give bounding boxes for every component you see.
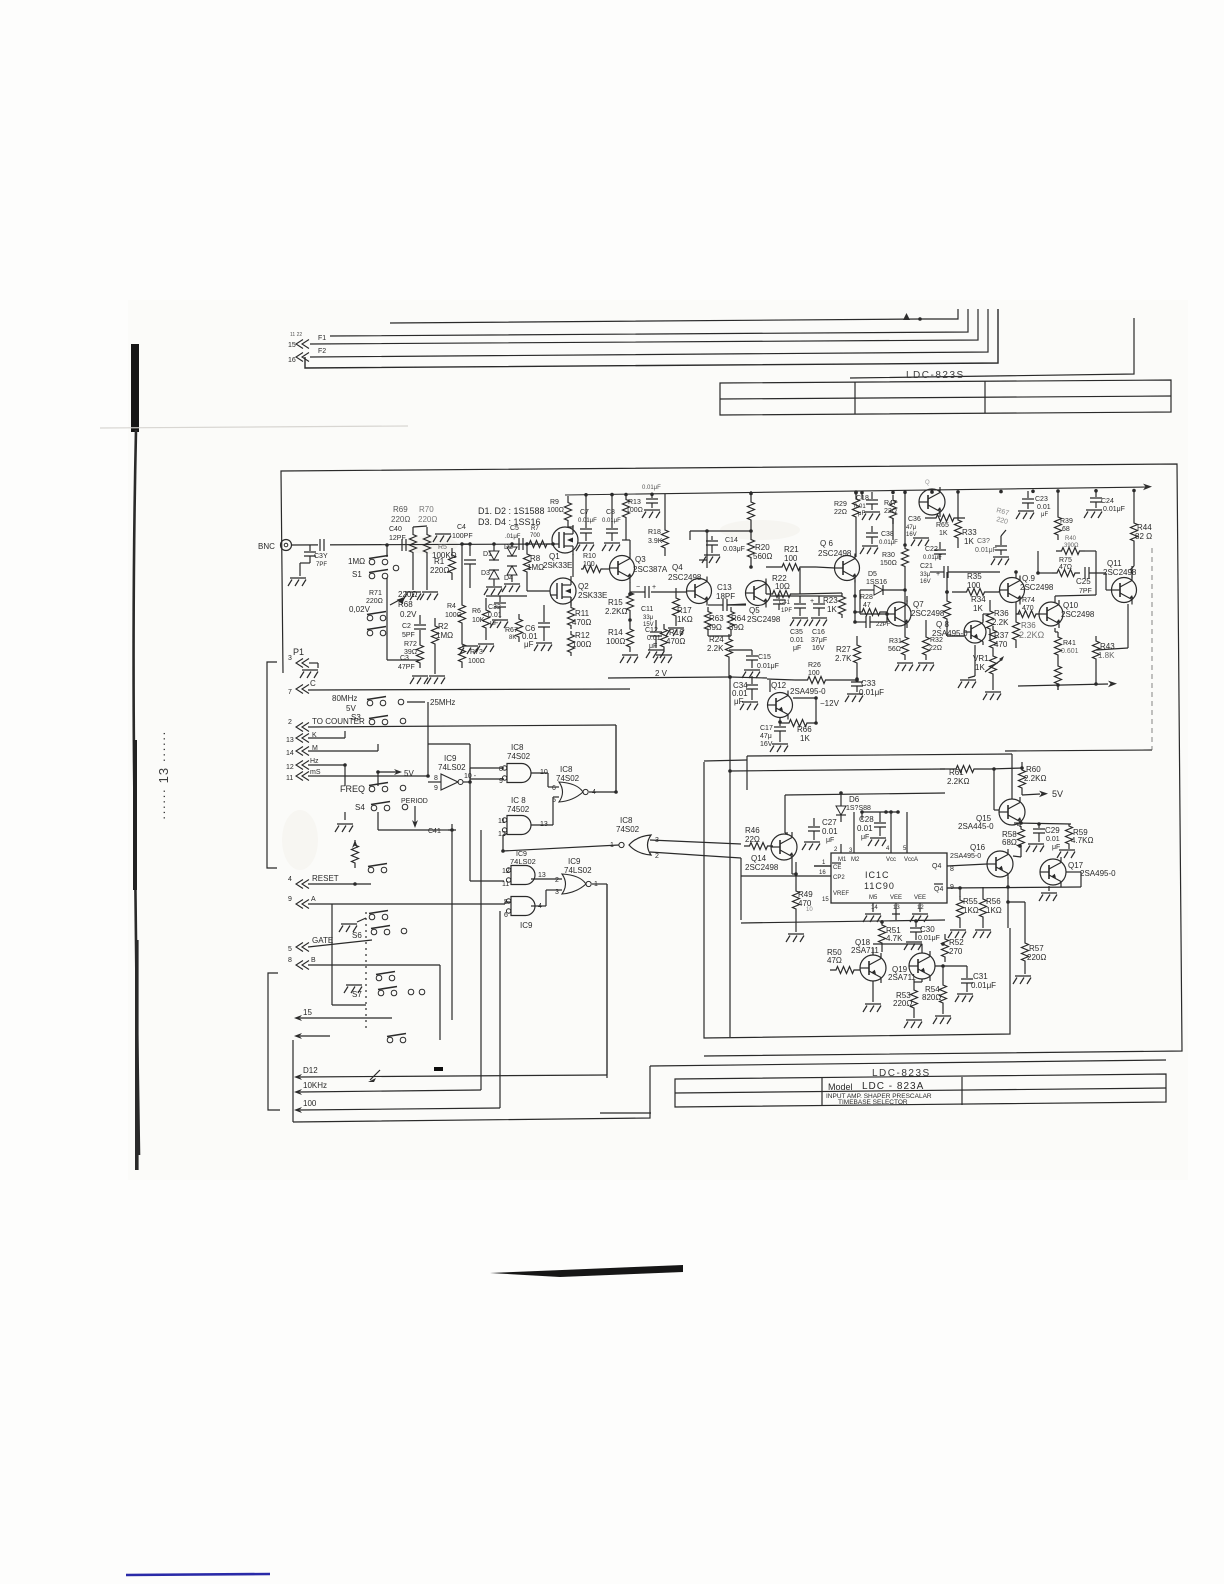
svg-text:220Ω: 220Ω xyxy=(430,566,449,575)
svg-text:LDC-823S: LDC-823S xyxy=(872,1068,931,1079)
wire R34 to Q8 xyxy=(946,628,948,636)
transistor Q6 2SC2498 xyxy=(835,556,860,581)
svg-text:2SC2498: 2SC2498 xyxy=(668,573,702,582)
wire F1 xyxy=(310,309,978,344)
svg-text:2.2KΩ: 2.2KΩ xyxy=(605,607,627,616)
svg-text:74502: 74502 xyxy=(507,805,530,814)
wire Q18 Q19 tops xyxy=(872,948,874,955)
switch linkage dashed xyxy=(365,912,367,1031)
switch S6a xyxy=(369,914,375,920)
svg-text:R13: R13 xyxy=(628,499,641,506)
svg-text:10Ω: 10Ω xyxy=(775,582,790,591)
svg-text:R20: R20 xyxy=(755,543,770,552)
svg-text:8: 8 xyxy=(434,775,438,782)
svg-text:2.2K: 2.2K xyxy=(992,618,1009,627)
svg-text:0.01μF: 0.01μF xyxy=(879,540,898,546)
svg-text:C23: C23 xyxy=(1035,496,1048,503)
svg-text:R72: R72 xyxy=(404,641,417,648)
svg-text:R70: R70 xyxy=(419,505,434,514)
wire top bus line 2 xyxy=(330,309,968,336)
svg-text:1KΩ: 1KΩ xyxy=(986,906,1002,915)
wire Q3 emitter xyxy=(629,582,631,583)
pin 12 Hz xyxy=(296,761,309,770)
svg-text:16V: 16V xyxy=(920,579,931,585)
top title strip table xyxy=(720,380,1171,415)
wire top net prescaler xyxy=(785,793,945,795)
svg-text:B: B xyxy=(311,957,316,964)
wire gate4 inputs right xyxy=(650,840,741,844)
svg-text:0.01μF: 0.01μF xyxy=(975,547,997,554)
svg-text:R74: R74 xyxy=(1022,597,1035,604)
wire K xyxy=(308,737,345,739)
wire Q16 collector down xyxy=(1007,877,1009,928)
svg-text:22Ω: 22Ω xyxy=(929,645,942,652)
svg-text:FREQ: FREQ xyxy=(340,784,365,794)
svg-text:7: 7 xyxy=(288,689,292,696)
svg-text:R49: R49 xyxy=(798,890,813,899)
wire 2V rail xyxy=(608,677,730,678)
transistor Q16 2SA495-0 xyxy=(987,851,1013,877)
svg-text:R32: R32 xyxy=(930,637,943,644)
svg-text:TIMEBASE SELECTOR: TIMEBASE SELECTOR xyxy=(838,1099,908,1106)
wire C line xyxy=(308,689,630,690)
ground Q17 xyxy=(1039,893,1057,901)
svg-text:VEE: VEE xyxy=(890,895,902,901)
svg-text:C24: C24 xyxy=(1101,498,1114,505)
IC10 grounds xyxy=(872,903,874,912)
svg-text:22PF: 22PF xyxy=(876,622,891,628)
svg-text:Q1: Q1 xyxy=(549,552,560,561)
wire D12 vertical top xyxy=(606,884,608,1075)
svg-text:Q4: Q4 xyxy=(672,563,683,572)
ground pin3 xyxy=(309,662,318,664)
svg-text:7PF: 7PF xyxy=(1079,588,1092,595)
svg-text:R55: R55 xyxy=(963,897,978,906)
svg-text:11 22: 11 22 xyxy=(290,332,302,338)
svg-text:RESET: RESET xyxy=(312,874,339,883)
svg-text:C41: C41 xyxy=(779,600,791,606)
transistor Q7 2SC2498 xyxy=(887,602,911,626)
svg-text:R75: R75 xyxy=(1059,557,1072,564)
svg-text:R14: R14 xyxy=(608,628,623,637)
transistor Q18 2SA711 xyxy=(860,955,886,981)
svg-text:C17: C17 xyxy=(760,725,773,732)
wire M xyxy=(308,750,378,752)
svg-text:Q14: Q14 xyxy=(751,854,767,863)
svg-text:C30: C30 xyxy=(920,925,935,934)
svg-text:1K: 1K xyxy=(827,605,837,614)
svg-text:470Ω: 470Ω xyxy=(666,637,685,646)
svg-text:R57: R57 xyxy=(1029,944,1044,953)
svg-text:R2: R2 xyxy=(438,622,449,631)
ground S6 xyxy=(339,924,357,932)
svg-text:C11: C11 xyxy=(641,606,653,613)
svg-text:1KΩ: 1KΩ xyxy=(963,906,979,915)
wire box S6S7 xyxy=(331,904,333,1005)
svg-text:IC8: IC8 xyxy=(511,743,524,752)
wire Q8 base xyxy=(947,635,964,637)
svg-text:0.01μF: 0.01μF xyxy=(971,981,996,990)
svg-text:0.01μF: 0.01μF xyxy=(642,485,661,491)
svg-text:2SA495-0: 2SA495-0 xyxy=(950,853,981,860)
svg-text:6: 6 xyxy=(552,785,556,792)
svg-text:M5: M5 xyxy=(869,895,878,901)
svg-text:1.8K: 1.8K xyxy=(1098,651,1115,660)
wire Q10 base xyxy=(1038,613,1039,615)
svg-text:C40: C40 xyxy=(389,526,402,533)
wire B xyxy=(308,964,440,966)
svg-text:0.01: 0.01 xyxy=(1037,504,1051,511)
svg-text:74LS02: 74LS02 xyxy=(510,857,536,866)
ground R31 xyxy=(895,663,913,671)
bracket lower xyxy=(268,973,280,1110)
svg-text:R21: R21 xyxy=(784,545,799,554)
svg-text:470: 470 xyxy=(994,640,1008,649)
svg-text:8: 8 xyxy=(499,766,503,773)
faint fold line xyxy=(100,426,408,428)
svg-text:S6: S6 xyxy=(352,931,362,940)
transistor Q10 2SC2498 xyxy=(1039,602,1063,626)
svg-text:C31: C31 xyxy=(973,972,988,981)
wire top bus line 1 xyxy=(390,309,958,323)
ground C12 xyxy=(646,650,664,658)
verticals from top rail xyxy=(861,492,863,499)
switch bottom xyxy=(387,1037,393,1043)
svg-text:C16: C16 xyxy=(812,629,825,636)
ground R16 xyxy=(654,655,672,663)
svg-text:22Ω: 22Ω xyxy=(834,509,847,516)
svg-text:C8: C8 xyxy=(606,509,615,516)
svg-text:100Ω: 100Ω xyxy=(606,637,625,646)
wire Q10 collector xyxy=(1054,596,1056,602)
wire from Q12 region down xyxy=(729,677,731,1037)
svg-text:2SC2498: 2SC2498 xyxy=(747,615,781,624)
svg-text:100PF: 100PF xyxy=(452,533,473,540)
capacitor C42 22PF xyxy=(866,616,870,628)
svg-text:D5: D5 xyxy=(868,571,877,578)
svg-text:820Ω: 820Ω xyxy=(922,993,941,1002)
pin 2 TO COUNTER xyxy=(296,723,309,732)
svg-text:S1: S1 xyxy=(352,570,362,579)
switch S3a xyxy=(367,700,373,706)
down arrow period xyxy=(414,806,416,826)
wire mS xyxy=(308,775,428,777)
svg-text:Q: Q xyxy=(925,480,930,486)
wire Q2 gate xyxy=(527,590,550,592)
svg-text:R36: R36 xyxy=(1021,621,1036,630)
pin 8 B xyxy=(296,961,309,970)
svg-text:R41: R41 xyxy=(1063,640,1076,647)
svg-text:C36: C36 xyxy=(908,516,921,523)
svg-text:13: 13 xyxy=(893,905,900,911)
ground R6 xyxy=(476,644,494,652)
pin 4 RESET xyxy=(296,880,309,889)
svg-text:μF: μF xyxy=(1041,512,1048,518)
transistor Q11 2SC2498 xyxy=(1112,578,1137,603)
svg-text:5V: 5V xyxy=(346,704,356,713)
svg-text:R23: R23 xyxy=(823,596,838,605)
svg-text:C4: C4 xyxy=(457,524,466,531)
pin 3 xyxy=(296,659,309,668)
svg-text:5V: 5V xyxy=(404,769,414,778)
svg-text:47μ: 47μ xyxy=(906,525,917,531)
label 5V arrow xyxy=(1021,792,1023,795)
svg-text:R34: R34 xyxy=(971,595,986,604)
svg-text:LDC-823S: LDC-823S xyxy=(906,370,965,381)
transistor Q15 2SA495-0 xyxy=(999,799,1025,825)
svg-text:5V: 5V xyxy=(1052,789,1063,799)
svg-text:11C90: 11C90 xyxy=(864,881,895,891)
IC10 left pin wires xyxy=(814,865,831,867)
svg-text:1KΩ: 1KΩ xyxy=(677,615,693,624)
wire 10KHz xyxy=(300,1090,481,1092)
svg-text:12: 12 xyxy=(917,905,924,911)
svg-text:C35: C35 xyxy=(790,629,803,636)
transistor Q1 2SK33E xyxy=(552,527,578,553)
svg-text:100: 100 xyxy=(784,554,798,563)
svg-text:2SC2498: 2SC2498 xyxy=(745,863,779,872)
svg-text:7PF: 7PF xyxy=(316,562,327,568)
wire Q1 gate node xyxy=(552,543,554,545)
svg-text:0.01: 0.01 xyxy=(1046,836,1060,843)
left page binding bar xyxy=(131,344,139,432)
svg-text:470Ω: 470Ω xyxy=(572,618,591,627)
resistor pullup above reset xyxy=(352,840,359,868)
pin 10KHz arrow xyxy=(294,1089,302,1095)
svg-text:11: 11 xyxy=(286,775,293,782)
svg-text:IC8: IC8 xyxy=(620,816,633,825)
svg-text:+: + xyxy=(810,598,814,605)
svg-text:R46: R46 xyxy=(745,826,760,835)
svg-text:2: 2 xyxy=(288,719,292,726)
svg-text:700: 700 xyxy=(530,533,541,539)
bold mark bottom center xyxy=(490,1265,683,1277)
svg-text:Q.9: Q.9 xyxy=(1022,574,1035,583)
svg-text:R12: R12 xyxy=(575,631,590,640)
svg-text:68Ω: 68Ω xyxy=(1002,838,1017,847)
wire Q6 emitter xyxy=(854,580,856,612)
wire F2 xyxy=(310,309,988,357)
svg-text:0.01: 0.01 xyxy=(790,637,804,644)
svg-text:74LS02: 74LS02 xyxy=(438,763,466,772)
svg-text:D6: D6 xyxy=(849,795,860,804)
resistor unlabeled top xyxy=(748,491,755,531)
svg-text:74S02: 74S02 xyxy=(507,752,531,761)
wire bottom rail right xyxy=(1018,684,1108,686)
svg-text:S7: S7 xyxy=(352,990,362,999)
svg-text:15: 15 xyxy=(288,342,296,349)
svg-text:0,02V: 0,02V xyxy=(349,605,371,614)
ground VR1 xyxy=(958,680,976,688)
svg-text:2SC2498: 2SC2498 xyxy=(1061,610,1095,619)
wire Q9 emitter chain xyxy=(1015,602,1017,614)
IC10 11C90 box xyxy=(831,853,947,903)
svg-text:IC1C: IC1C xyxy=(865,870,890,880)
svg-text:IC9: IC9 xyxy=(520,921,533,930)
svg-text:390Ω: 390Ω xyxy=(1064,543,1079,549)
wire Hz xyxy=(308,764,345,766)
arrow top rail xyxy=(1143,484,1152,491)
svg-text:16: 16 xyxy=(819,870,826,876)
svg-text:R30: R30 xyxy=(882,552,895,559)
wire mid rail xyxy=(462,543,470,545)
svg-text:R36: R36 xyxy=(994,609,1009,618)
capacitor series input xyxy=(322,539,326,551)
svg-text:13: 13 xyxy=(538,872,546,879)
svg-text:6: 6 xyxy=(504,912,508,919)
svg-text:Vcc: Vcc xyxy=(886,857,896,863)
svg-text:0.01μF: 0.01μF xyxy=(757,663,779,670)
svg-text:68: 68 xyxy=(1062,526,1070,533)
wire R57 up xyxy=(1024,902,1026,938)
svg-text:4.7KΩ: 4.7KΩ xyxy=(1071,836,1093,845)
svg-text:S3: S3 xyxy=(351,713,361,722)
svg-text:R11: R11 xyxy=(575,609,590,618)
svg-text:2: 2 xyxy=(655,853,659,860)
junction dots misc xyxy=(426,774,430,778)
wire Q3 base from R10 xyxy=(603,568,609,570)
svg-text:C7: C7 xyxy=(580,509,589,516)
svg-text:R4: R4 xyxy=(447,603,456,610)
svg-text:25MHz: 25MHz xyxy=(430,698,455,707)
svg-text:R27: R27 xyxy=(836,645,851,654)
wire Q11 emitter down xyxy=(1127,604,1129,648)
junction xyxy=(918,317,922,321)
wire A xyxy=(308,903,505,905)
frame bottom step xyxy=(650,1060,1166,1066)
svg-text:2SC387A: 2SC387A xyxy=(633,565,668,574)
svg-text:C14: C14 xyxy=(725,537,738,544)
svg-text:15: 15 xyxy=(822,897,829,903)
svg-text:11: 11 xyxy=(502,881,509,888)
svg-text:Q4: Q4 xyxy=(932,863,941,870)
pin 11 mS xyxy=(296,772,309,781)
wire y755 to Q15 area xyxy=(747,754,1012,756)
svg-text:220Ω: 220Ω xyxy=(1027,953,1046,962)
svg-text:74LS02: 74LS02 xyxy=(564,866,592,875)
wire Q5 base xyxy=(727,604,746,605)
diode D1 xyxy=(489,551,499,560)
ground under R1 xyxy=(403,592,421,600)
wire inner box right xyxy=(1005,750,1152,751)
svg-text:Q2: Q2 xyxy=(578,582,589,591)
svg-text:11: 11 xyxy=(498,818,505,825)
svg-text:C28: C28 xyxy=(859,815,874,824)
switch S4a xyxy=(369,786,375,792)
svg-text:VccA: VccA xyxy=(904,857,918,863)
svg-text:······ 13 ······: ······ 13 ······ xyxy=(156,730,171,820)
svg-text:C21: C21 xyxy=(920,563,933,570)
svg-text:2.2K: 2.2K xyxy=(707,644,724,653)
svg-text:R10: R10 xyxy=(583,553,596,560)
svg-text:R17: R17 xyxy=(677,606,692,615)
svg-text:2SC2498: 2SC2498 xyxy=(911,609,945,618)
svg-text:18PF: 18PF xyxy=(716,592,735,601)
ground Q18 emitter xyxy=(872,981,874,1002)
svg-text:9: 9 xyxy=(288,896,292,903)
svg-text:F2: F2 xyxy=(318,348,326,355)
svg-text:LDC - 823A: LDC - 823A xyxy=(862,1081,924,1092)
wire Q7 collector xyxy=(906,596,908,602)
svg-text:C: C xyxy=(310,679,316,688)
switch S3b xyxy=(369,719,375,725)
connector BNC xyxy=(281,540,292,551)
svg-text:37μF: 37μF xyxy=(811,637,827,644)
svg-text:μF: μF xyxy=(826,837,834,844)
svg-text:2.2KΩ: 2.2KΩ xyxy=(1019,630,1045,640)
svg-text:Q4: Q4 xyxy=(934,886,943,893)
bottom title block xyxy=(675,1074,1166,1107)
svg-text:R28: R28 xyxy=(860,594,873,601)
ground R49 xyxy=(786,934,804,942)
svg-text:16V: 16V xyxy=(906,532,917,538)
svg-text:Q5: Q5 xyxy=(749,606,760,615)
transistor Q4 2SC2498 xyxy=(687,579,712,604)
wire Q6 collector top xyxy=(854,555,856,556)
svg-text:+: + xyxy=(652,584,656,591)
wire Q1 drain up xyxy=(572,526,574,527)
wire TO COUNTER drop xyxy=(615,725,617,792)
svg-text:μF: μF xyxy=(793,645,801,652)
svg-text:15: 15 xyxy=(303,1008,312,1017)
ground R56 xyxy=(973,930,991,938)
ground R32 xyxy=(916,663,934,671)
svg-text:R7: R7 xyxy=(531,526,539,532)
svg-text:0.03μF: 0.03μF xyxy=(723,546,745,553)
wire Q5 emitter to caps xyxy=(770,595,842,597)
resistor R22 zigzag xyxy=(766,591,797,598)
bottom bus corner xyxy=(293,1066,650,1122)
svg-text:Q16: Q16 xyxy=(970,843,986,852)
svg-text:R40: R40 xyxy=(1065,536,1077,542)
svg-text:10: 10 xyxy=(806,907,813,913)
svg-text:R52: R52 xyxy=(949,938,964,947)
svg-text:R18: R18 xyxy=(648,529,661,536)
svg-text:R65: R65 xyxy=(936,522,949,529)
transistor Q2 2SK33E xyxy=(550,578,576,604)
ground R53 xyxy=(904,1020,922,1028)
svg-text:100Ω: 100Ω xyxy=(468,658,485,665)
svg-text:2SA495-0: 2SA495-0 xyxy=(790,687,826,696)
svg-text:270: 270 xyxy=(949,947,963,956)
svg-text:16V: 16V xyxy=(760,741,773,748)
svg-text:R6: R6 xyxy=(472,608,481,615)
ground mid xyxy=(460,646,478,654)
svg-text:C41: C41 xyxy=(428,828,441,835)
svg-text:33μ: 33μ xyxy=(920,572,931,578)
svg-text:IC9: IC9 xyxy=(568,857,581,866)
svg-text:12PF: 12PF xyxy=(389,535,406,542)
svg-text:1MΩ: 1MΩ xyxy=(348,557,365,566)
wire Q9 collector xyxy=(1015,572,1017,578)
svg-text:1K: 1K xyxy=(964,537,974,546)
svg-text:M1: M1 xyxy=(838,857,847,863)
wire 100 xyxy=(300,1108,500,1110)
svg-text:C33: C33 xyxy=(861,679,876,688)
switch reset xyxy=(368,867,374,873)
svg-text:CE: CE xyxy=(833,865,841,871)
svg-text:Q3: Q3 xyxy=(635,555,646,564)
gate IC9 g xyxy=(511,897,535,916)
svg-text:C29: C29 xyxy=(1045,826,1060,835)
wire y771 5V feed xyxy=(730,769,945,771)
wire Q11 collector xyxy=(1131,566,1133,578)
svg-text:2.2KΩ: 2.2KΩ xyxy=(947,777,969,786)
wire logic verticals xyxy=(469,744,471,782)
switch S6b xyxy=(371,929,377,935)
svg-text:16: 16 xyxy=(288,357,296,364)
svg-text:R56: R56 xyxy=(986,897,1001,906)
